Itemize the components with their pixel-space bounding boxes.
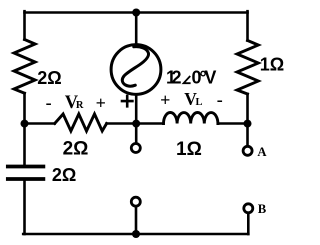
wire source bottom (circle to node) (135, 94, 138, 123)
capacitor C1 top plate (8, 165, 44, 169)
resistor R3 2ohm (V_R horizontal zigzag) (55, 114, 107, 131)
svg-text:2Ω: 2Ω (63, 138, 89, 159)
svg-text:1Ω: 1Ω (260, 55, 284, 75)
svg-text:1Ω: 1Ω (176, 139, 202, 160)
resistor R1 2ohm (left vertical zigzag) (14, 40, 35, 94)
terminal A open circle (243, 146, 252, 155)
inductor L1 1ohm (4 humps) (164, 112, 218, 123)
node right middle junction (244, 120, 252, 128)
node bottom junction (132, 230, 140, 238)
source V1 plus sign (122, 96, 132, 106)
wire left vertical lower (capacitor to bottom) (23, 181, 26, 234)
resistor R2 1ohm (right vertical zigzag) (237, 41, 258, 95)
terminal B open circle (244, 204, 253, 213)
wire middle left segment (25, 122, 55, 125)
svg-text:-: - (46, 93, 52, 113)
wire stub node to terminal A (246, 124, 249, 146)
wire source top (node to circle) (135, 13, 138, 46)
wire bottom horizontal (23, 233, 248, 236)
label source angle symbol (184, 76, 191, 83)
svg-text:2Ω: 2Ω (37, 68, 61, 88)
svg-text:L: L (196, 97, 203, 108)
terminal bottom-middle open circle (131, 197, 140, 206)
wire middle center-left segment (107, 122, 164, 125)
source V1 circle (111, 45, 161, 95)
terminal below source (131, 144, 140, 153)
svg-text:B: B (258, 202, 267, 216)
node top junction (132, 9, 140, 17)
capacitor C1 bottom plate (8, 177, 44, 181)
wire right vertical mid (resistor to node) (246, 94, 249, 124)
wire left vertical upper (23, 11, 26, 39)
svg-text:-: - (217, 89, 223, 109)
wire left vertical mid (resistor to capacitor) (23, 93, 26, 164)
wire top horizontal (25, 11, 248, 14)
svg-text:V: V (204, 67, 216, 87)
svg-text:+: + (96, 93, 106, 113)
wire stub node to middle terminal (135, 124, 138, 143)
wire stub terminal B (247, 214, 250, 234)
svg-text:R: R (76, 100, 84, 111)
wire stub bottom-middle terminal to bottom wire (135, 207, 138, 234)
source V1 sine symbol (122, 47, 148, 86)
svg-text:2Ω: 2Ω (52, 165, 76, 185)
wire right vertical upper (246, 11, 249, 40)
node center middle junction (132, 120, 140, 128)
wire middle right segment (218, 122, 248, 125)
svg-text:+: + (160, 90, 170, 110)
node left middle junction (21, 120, 29, 128)
svg-text:2: 2 (172, 67, 182, 87)
svg-text:A: A (257, 145, 267, 159)
